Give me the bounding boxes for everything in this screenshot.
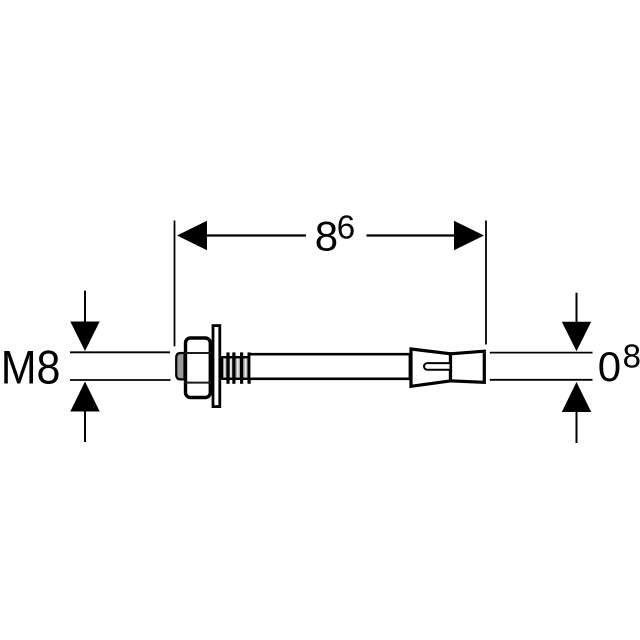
diameter arrowhead top (down) [562, 322, 591, 352]
clip/cone joint line [449, 354, 452, 381]
diameter callout top line right [490, 352, 593, 354]
thread highlight 1 [224, 359, 226, 378]
M8 arrowhead top (down) [70, 322, 99, 352]
M8 arrow stem top [84, 291, 86, 322]
hex nut body [186, 338, 211, 398]
dimension line left segment [204, 234, 306, 236]
diameter arrowhead bottom (up) [562, 382, 591, 412]
diameter arrow stem bottom [576, 412, 578, 444]
svg-text:0: 0 [598, 343, 621, 390]
thread highlight 4 [245, 359, 247, 378]
svg-text:6: 6 [337, 208, 355, 245]
washer [213, 326, 220, 407]
diameter arrow stem top [576, 293, 578, 322]
hex nut facet line upper [184, 352, 211, 354]
hex nut facet line lower [184, 382, 211, 384]
thread highlight 2 [230, 359, 232, 378]
clip slot [424, 363, 450, 370]
thread crest 2 [232, 352, 235, 383]
expansion clip [411, 349, 451, 386]
thread crest 3 [240, 352, 243, 383]
thread crest 1 [226, 352, 229, 383]
thread band grey [222, 357, 251, 379]
extension line right (length dim) [485, 221, 487, 345]
arrowhead right [454, 221, 484, 250]
M8 arrow stem bottom [84, 411, 86, 442]
thread crest 4 [248, 352, 251, 383]
diameter callout bottom line right [490, 379, 593, 381]
svg-text:M8: M8 [1, 340, 61, 393]
thread highlight 3 [237, 359, 239, 378]
M8 callout bottom line [70, 379, 171, 381]
svg-text:8: 8 [315, 212, 338, 259]
bolt shank [249, 354, 410, 379]
extension line left (length dim) [174, 221, 176, 347]
bolt protruding tip (grey) [176, 353, 184, 379]
arrowhead left [177, 221, 207, 250]
svg-text:8: 8 [623, 337, 640, 374]
dimension line right segment [367, 234, 457, 236]
M8 callout top line [70, 351, 170, 353]
M8 arrowhead bottom (up) [70, 382, 99, 412]
expansion cone [451, 351, 485, 382]
